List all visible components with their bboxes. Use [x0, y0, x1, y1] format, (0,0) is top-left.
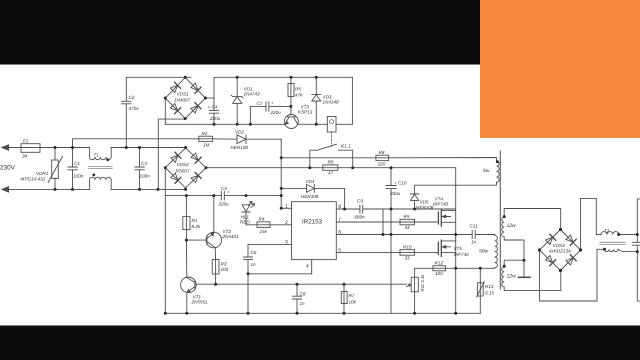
- transformer T3 core: [499, 151, 501, 289]
- capacitor C8: [293, 296, 302, 299]
- diode VD5: [411, 194, 419, 200]
- wire C4 leads: [213, 77, 215, 124]
- svg-text:+ C4: + C4: [208, 105, 218, 110]
- wire pin7 R9 gate row: [336, 221, 438, 223]
- svg-text:220u: 220u: [270, 110, 282, 115]
- bridge rectifier VDS3: [540, 230, 581, 271]
- winding 6w primary aux: [497, 161, 500, 183]
- wire VD3 leads: [315, 77, 317, 124]
- node input arrow top: [2, 145, 9, 150]
- wire VD2 vertical bus: [280, 139, 282, 208]
- svg-text:5: 5: [338, 248, 341, 254]
- svg-text:100: 100: [435, 271, 443, 276]
- svg-text:+: +: [227, 190, 230, 195]
- resistor R8: [376, 155, 389, 160]
- svg-text:T2: T2: [604, 229, 610, 234]
- wire VT2 collector to R3: [214, 248, 216, 285]
- svg-text:1N4007: 1N4007: [174, 98, 191, 103]
- capacitor C4: [209, 110, 218, 113]
- resistor R5: [288, 84, 294, 97]
- svg-text:VDS3: VDS3: [553, 243, 565, 248]
- wire R7 leads: [343, 284, 345, 313]
- fuse F1: [21, 144, 40, 153]
- winding 50w primary: [495, 235, 498, 269]
- wire pin3 row: [248, 244, 292, 246]
- node sub rail junctions: [213, 123, 216, 126]
- capacitor C1: [68, 167, 77, 170]
- svg-text:C2: C2: [129, 95, 135, 100]
- wire row R12 R13 50w bottom: [415, 267, 495, 269]
- svg-text:470n: 470n: [129, 106, 140, 111]
- resistor R11 trimmer: [411, 277, 418, 292]
- wire pin6 VS row to midpoint: [336, 234, 494, 236]
- wire R5 leads: [290, 77, 292, 106]
- svg-text:VD4: VD4: [306, 179, 315, 184]
- wire C2 leads: [125, 77, 127, 147]
- led HL1: [242, 202, 255, 213]
- bottom letterbox bar: [0, 326, 640, 360]
- wire sub rail under VD1: [165, 123, 352, 125]
- svg-text:2N5551: 2N5551: [191, 300, 209, 305]
- capacitor C10: [386, 186, 396, 189]
- wire K1.1 switch legs and blade: [310, 144, 353, 168]
- svg-text:2: 2: [285, 220, 288, 226]
- svg-text:8: 8: [338, 204, 341, 210]
- svg-text:+: +: [271, 101, 274, 106]
- wire VDR1 leads: [54, 148, 56, 190]
- svg-text:220u: 220u: [209, 116, 221, 121]
- wire bridge left output down: [540, 249, 598, 301]
- capacitor C11: [472, 230, 475, 238]
- node VDS2 corners: [164, 166, 167, 169]
- svg-text:R9: R9: [404, 214, 410, 219]
- wire output bus right edge: [637, 199, 640, 301]
- wire AC line bottom from input to VDS2 bottom: [4, 188, 186, 189]
- svg-text:R10: R10: [403, 244, 412, 249]
- svg-text:R11 3.3k: R11 3.3k: [420, 274, 425, 292]
- wire VT1 base row: [196, 283, 406, 285]
- svg-text:6w: 6w: [483, 168, 490, 174]
- wire VD5 column and 6w bottom row: [415, 183, 497, 210]
- wire bridge right output up over: [581, 199, 597, 250]
- top letterbox bar: [0, 0, 640, 65]
- svg-text:R2: R2: [202, 131, 208, 136]
- resistor R12: [433, 266, 446, 271]
- wire pin1 stub: [281, 207, 291, 209]
- node upper rail junctions: [184, 76, 187, 79]
- wire tap to R2 VD2 row: [73, 139, 282, 148]
- svg-text:R12: R12: [435, 260, 444, 265]
- diode VD1 zener: [231, 95, 243, 103]
- svg-text:220: 220: [377, 162, 386, 167]
- wire pin4 drop: [248, 260, 312, 314]
- svg-text:+ C10: + C10: [394, 181, 407, 186]
- wire row through R8 to 6w winding: [281, 158, 496, 161]
- wire VT1 emitter: [186, 293, 188, 314]
- resistor R9: [400, 219, 415, 225]
- node bootstrap row junctions: [343, 208, 346, 211]
- wire C7 leads: [250, 106, 291, 124]
- svg-text:VD5: VD5: [420, 200, 429, 205]
- svg-text:IRF740: IRF740: [433, 202, 449, 207]
- wire upper rail: [126, 76, 352, 78]
- svg-text:3: 3: [285, 240, 288, 246]
- svg-text:1: 1: [285, 204, 288, 210]
- svg-text:100n: 100n: [73, 174, 84, 179]
- svg-text:RED: RED: [240, 220, 250, 225]
- wire VD4 row to pin8 drop: [281, 188, 344, 209]
- svg-text:12w: 12w: [507, 223, 517, 229]
- wire pin5 R10 gate row: [336, 251, 438, 253]
- svg-text:1N4743: 1N4743: [244, 92, 261, 97]
- svg-text:VDS1: VDS1: [177, 92, 189, 97]
- wire R1 branch and VT2 base: [186, 196, 206, 278]
- svg-text:C9: C9: [357, 199, 363, 204]
- svg-text:C8: C8: [300, 292, 306, 297]
- svg-text:15k: 15k: [260, 229, 268, 234]
- svg-text:R4: R4: [259, 217, 265, 222]
- wire VDS1 right corner to C4: [205, 97, 214, 99]
- svg-text:R7: R7: [349, 293, 355, 298]
- wire LED to R4 pin2 row: [246, 212, 292, 225]
- svg-text:0.15: 0.15: [485, 291, 494, 296]
- svg-text:T1: T1: [94, 153, 100, 158]
- svg-text:4: 4: [306, 264, 309, 270]
- wire C9 right drop: [382, 209, 384, 235]
- svg-text:R8: R8: [379, 150, 385, 155]
- svg-text:47k: 47k: [295, 93, 303, 98]
- wire R13 leads: [479, 268, 481, 313]
- wire R11 leads: [414, 268, 416, 313]
- transistor VT1: [181, 277, 197, 293]
- svg-text:1n: 1n: [471, 240, 477, 245]
- svg-text:KSP13: KSP13: [298, 110, 313, 115]
- transistor VT5 mosfet: [438, 240, 441, 256]
- orange overlay block: [480, 0, 640, 138]
- relay coil K1: [327, 117, 336, 133]
- svg-text:F1: F1: [23, 139, 29, 144]
- svg-text:100n: 100n: [140, 174, 151, 179]
- winding 12w secondary bottom: [502, 267, 505, 287]
- svg-text:1N4148: 1N4148: [323, 100, 340, 105]
- node pin4 C6 junction: [247, 272, 250, 275]
- node C5 row junctions: [185, 194, 188, 197]
- bridge rectifier VDS1: [165, 78, 205, 119]
- wire VD1 leads: [236, 77, 238, 124]
- capacitor C2: [122, 101, 131, 104]
- svg-text:230V: 230V: [0, 165, 16, 172]
- svg-text:R3: R3: [221, 262, 227, 267]
- capacitor C5: [221, 191, 224, 200]
- node junction dots AC lines: [54, 146, 57, 149]
- svg-text:HER108: HER108: [416, 205, 434, 210]
- svg-text:7: 7: [338, 217, 341, 223]
- wire C6 leads: [247, 245, 249, 274]
- node input arrow bottom: [2, 187, 9, 192]
- svg-text:330u: 330u: [390, 191, 401, 196]
- svg-text:50w: 50w: [479, 249, 489, 255]
- svg-text:47: 47: [328, 171, 334, 176]
- transistor VT3: [284, 115, 298, 129]
- svg-text:VDR1: VDR1: [36, 171, 49, 176]
- wire 12w top feed to bridge: [504, 209, 561, 230]
- svg-text:VDS2: VDS2: [177, 162, 189, 167]
- node R12 row junctions: [454, 267, 457, 270]
- node R6 row junctions: [308, 166, 311, 169]
- wire rail drop to relay: [351, 77, 353, 124]
- svg-text:12w: 12w: [507, 274, 517, 280]
- node transformer polarity dots: [496, 160, 499, 163]
- wire C5 row: [165, 195, 281, 197]
- capacitor C7: [266, 102, 269, 112]
- wire C8 leads: [296, 284, 298, 313]
- ic U1 IR2153: [292, 202, 337, 260]
- winding 12w secondary top: [502, 217, 504, 237]
- node T1 polarity dots: [106, 158, 109, 161]
- svg-text:680n: 680n: [355, 215, 366, 220]
- node VT3 base: [289, 105, 292, 108]
- svg-text:6: 6: [338, 230, 341, 236]
- capacitor C6: [244, 257, 253, 259]
- resistor R7: [341, 292, 347, 304]
- wire VDS2 minus vertical: [164, 168, 166, 314]
- svg-text:1n: 1n: [251, 262, 257, 267]
- resistor R1: [183, 216, 190, 229]
- svg-text:4xKD213A: 4xKD213A: [549, 249, 571, 254]
- wire VDS1 left corner to AC bottom: [164, 98, 166, 124]
- resistor R4: [257, 222, 270, 228]
- svg-text:1M: 1M: [203, 143, 210, 148]
- svg-text:MYG14-431: MYG14-431: [21, 177, 46, 182]
- svg-text:IRF740: IRF740: [454, 252, 470, 257]
- svg-text:C11: C11: [470, 224, 479, 229]
- svg-text:C6: C6: [251, 250, 257, 255]
- svg-text:R1: R1: [192, 218, 198, 223]
- svg-text:HER108: HER108: [231, 145, 249, 150]
- svg-text:1n: 1n: [300, 301, 306, 306]
- svg-text:IR2153: IR2153: [302, 219, 323, 226]
- diode VD3: [312, 94, 321, 101]
- resistor R3: [212, 260, 219, 275]
- svg-text:C1: C1: [74, 161, 80, 166]
- wire 12w bottom top lead: [504, 260, 524, 267]
- node VT1 base row junctions: [214, 283, 217, 286]
- node VS row junctions: [382, 233, 385, 236]
- resistor R6: [323, 165, 338, 170]
- svg-text:R13: R13: [485, 284, 494, 289]
- wire C3 leads: [139, 148, 141, 190]
- diode VD4: [307, 185, 315, 193]
- wire VT2 emitter up: [213, 196, 215, 233]
- wire 12w center tap to ground bar: [504, 237, 524, 277]
- wire C10 vertical: [390, 168, 392, 314]
- capacitor C9: [360, 205, 363, 213]
- svg-text:K1.1: K1.1: [341, 144, 351, 150]
- resistor R10: [400, 250, 415, 256]
- svg-text:33: 33: [405, 256, 411, 261]
- wire AC line top from input to VDS2: [4, 147, 186, 149]
- inductor T1 common mode choke: [90, 148, 112, 160]
- resistor R13 shunt: [477, 283, 483, 296]
- svg-text:RS607: RS607: [176, 169, 190, 174]
- svg-text:8.2k: 8.2k: [192, 224, 201, 229]
- svg-text:10k: 10k: [349, 300, 357, 305]
- svg-text:33: 33: [405, 225, 411, 230]
- diode VD2: [237, 135, 246, 144]
- wire ground rail: [165, 312, 480, 314]
- svg-text:C7: C7: [257, 101, 263, 106]
- node VD2 bus junctions: [280, 156, 283, 159]
- wire AC top to VDS1 bottom corner: [158, 119, 185, 189]
- svg-text:220u: 220u: [218, 202, 230, 207]
- wire VT3 base lead: [290, 106, 292, 114]
- wire 12w bottom to bridge bottom: [504, 271, 561, 291]
- wire C1 leads: [72, 148, 74, 190]
- wire row VDS2 plus through R6: [206, 167, 456, 169]
- capacitor output: [632, 242, 640, 245]
- node T2 junctions: [617, 233, 620, 236]
- resistor R2: [199, 136, 213, 141]
- varistor VDR1: [52, 160, 59, 179]
- wire half-bridge bus: [455, 168, 457, 314]
- svg-text:100: 100: [221, 267, 229, 272]
- svg-text:2N5401: 2N5401: [222, 234, 240, 239]
- wire relay link to K1.1: [331, 132, 333, 147]
- node VDS1 corners: [164, 97, 167, 100]
- wire pin8 bootstrap row: [336, 208, 455, 210]
- svg-text:3A: 3A: [22, 154, 28, 159]
- wire T2 leads: [596, 235, 637, 252]
- node ground rail junctions: [164, 312, 167, 315]
- transistor VT2: [206, 232, 222, 248]
- transistor VT4 mosfet: [438, 210, 441, 226]
- transformer T2 output choke: [601, 232, 619, 235]
- svg-text:R5: R5: [295, 87, 301, 92]
- capacitor C3: [135, 167, 144, 170]
- bridge rectifier VDS2: [165, 148, 206, 188]
- svg-text:VT5: VT5: [454, 246, 463, 251]
- svg-text:C3: C3: [141, 161, 147, 166]
- node VDS3 corners: [559, 228, 562, 231]
- svg-text:R6: R6: [328, 160, 334, 165]
- svg-text:HER108: HER108: [301, 194, 319, 199]
- node VT2 base junction: [185, 239, 188, 242]
- svg-text:VD2: VD2: [235, 130, 244, 135]
